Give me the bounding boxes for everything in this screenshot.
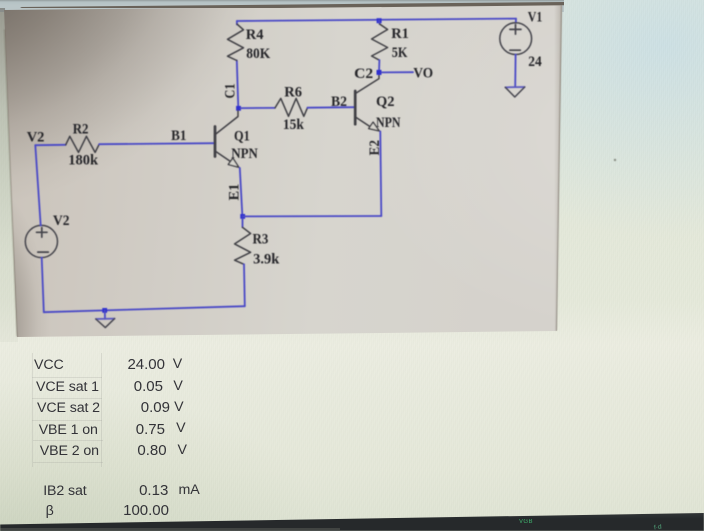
wire R6 to Q2 base <box>308 106 356 109</box>
svg-text:R2: R2 <box>73 122 89 138</box>
label 24 <box>528 54 542 70</box>
node top of R1 <box>377 18 382 23</box>
node ground junction <box>102 308 107 313</box>
window left edge seam <box>5 30 18 336</box>
svg-text:24: 24 <box>528 54 542 70</box>
svg-text:C2: C2 <box>354 66 373 82</box>
svg-text:5K: 5K <box>392 45 408 61</box>
label V2 of source <box>53 213 70 229</box>
svg-text:C1: C1 <box>223 84 239 99</box>
resistor R1 <box>372 21 388 73</box>
results table gridlines <box>32 353 33 467</box>
svg-text:180k: 180k <box>68 153 99 169</box>
net label E1 (rotated) <box>227 184 243 201</box>
label V1 <box>528 10 543 26</box>
wire E1 row to E2 riser <box>243 131 382 216</box>
net label E2 (rotated) <box>367 140 383 156</box>
label 15k <box>283 117 305 133</box>
net label C1 (rotated) <box>223 84 239 99</box>
svg-text:NPN: NPN <box>231 146 258 162</box>
svg-text:B2: B2 <box>331 94 347 110</box>
label Q2 <box>376 94 395 110</box>
voltage source V1 <box>500 19 532 87</box>
net label VO <box>413 65 433 81</box>
svg-text:3.9k: 3.9k <box>253 252 280 268</box>
svg-text:Q1: Q1 <box>234 129 250 145</box>
wire C2 to VO <box>382 71 414 73</box>
node Q1 collector junction <box>236 106 241 111</box>
svg-text:R4: R4 <box>246 27 264 43</box>
label R1 <box>391 26 409 42</box>
wire R2 to Q1 base <box>99 143 214 144</box>
resistor R4 <box>228 24 244 61</box>
wire V2 top lead <box>35 145 40 225</box>
wire V2 bottom to rail <box>42 258 245 313</box>
voltage source V2 <box>25 225 57 257</box>
svg-text:V2: V2 <box>53 213 70 229</box>
wire top rail <box>237 19 516 21</box>
svg-text:B1: B1 <box>171 128 186 144</box>
ground under V1 <box>505 87 524 97</box>
dust speck <box>614 159 616 161</box>
resistor R6 <box>275 98 308 116</box>
label 180k <box>68 153 99 169</box>
svg-text:R3: R3 <box>253 232 269 248</box>
svg-text:Q2: Q2 <box>376 94 395 110</box>
svg-text:R6: R6 <box>284 85 302 101</box>
svg-text:V2: V2 <box>27 130 45 146</box>
net label C2 <box>354 66 373 82</box>
svg-text:E2: E2 <box>367 140 383 156</box>
label R4 <box>246 27 264 43</box>
transistor Q1 <box>215 111 239 168</box>
net label V2 (top left) <box>27 130 45 146</box>
label 80K <box>246 46 271 62</box>
label Q1 <box>234 129 250 145</box>
results table text <box>34 357 64 373</box>
label 3.9k <box>253 252 280 268</box>
net label B1 <box>171 128 186 144</box>
label NPN of Q2 <box>376 115 401 131</box>
svg-text:R1: R1 <box>391 26 409 42</box>
label R3 <box>253 232 269 248</box>
node E1 junction <box>240 214 245 219</box>
wire V2 corner to R2 <box>35 144 65 146</box>
label NPN of Q1 <box>231 146 258 162</box>
node C2 junction <box>377 70 382 75</box>
transistor Q2 <box>355 75 379 131</box>
label R6 <box>284 85 302 101</box>
wire collector row to R6 <box>241 107 276 109</box>
resistor R2 <box>66 136 100 152</box>
svg-text:NPN: NPN <box>376 115 401 131</box>
svg-text:80K: 80K <box>246 46 271 62</box>
svg-text:VO: VO <box>413 65 433 81</box>
ground on bottom rail <box>96 310 115 327</box>
label 5K <box>392 45 408 61</box>
window right edge seam <box>557 6 562 330</box>
net label B2 <box>331 94 347 110</box>
wire C1 net (R4 to Q1 collector node) <box>237 21 239 108</box>
svg-text:V1: V1 <box>528 10 543 26</box>
svg-text:15k: 15k <box>283 117 305 133</box>
label R2 <box>73 122 89 138</box>
resistor R3 <box>235 219 251 307</box>
wire Q1 emitter down to E1 node <box>240 168 243 217</box>
